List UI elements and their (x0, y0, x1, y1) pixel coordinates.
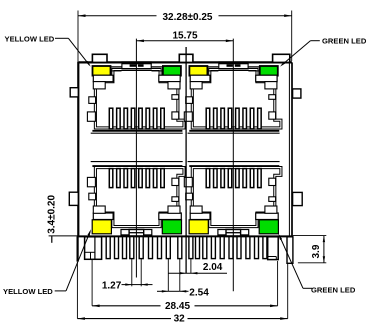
label GREEN LED (top-right) with leader (280, 37, 367, 67)
dimension 3.4±0.20 LED height (46, 195, 77, 243)
through-hole pins row (106, 237, 267, 259)
port cavity wall port C (bottom-left) (95, 168, 184, 227)
LED housing right port B (top-right) (256, 75, 277, 89)
port column centerline B (232, 39, 234, 292)
LED housing right port A (top-left) (159, 75, 180, 89)
shield side tab lower-left (69, 192, 78, 205)
svg-text:YELLOW LED: YELLOW LED (5, 35, 55, 44)
center divider line between port columns (185, 47, 187, 273)
LED housing right port D (bottom-right) (256, 206, 279, 220)
yellow LED window port D (bottom-right) (189, 220, 208, 234)
contact comb (8 contacts) port C (bottom-left) (109, 169, 164, 188)
svg-text:15.75: 15.75 (172, 30, 197, 41)
label YELLOW LED (top-left) with leader (5, 35, 91, 67)
yellow LED window port A (top-left) (93, 66, 111, 76)
yellow LED window port B (top-right) (189, 66, 207, 76)
LED housing left port C (bottom-left) (93, 206, 113, 220)
LED housing left port B (top-right) (190, 75, 210, 89)
dimension 2.54 (157, 259, 209, 298)
svg-text:GREEN LED: GREEN LED (322, 37, 367, 46)
cavity side notches port B (top-right) (184, 95, 275, 122)
svg-text:1.27: 1.27 (102, 281, 122, 292)
label GREEN LED (bottom-right) with leader (278, 234, 356, 295)
svg-text:32: 32 (174, 313, 186, 324)
contact comb (8 contacts) port D (bottom-right) (206, 169, 261, 188)
cavity side notches port A (top-left) (87, 95, 178, 122)
green LED window port A (top-left) (163, 66, 181, 76)
port face base lines port C (bottom-left) (91, 162, 183, 167)
dimension 3.9 pin length (293, 236, 327, 263)
port cavity wall port A (top-left) (95, 70, 184, 128)
dimension 2.04 (169, 259, 228, 274)
latch recess port D (bottom-right) (218, 230, 249, 236)
svg-text:3.4±0.20: 3.4±0.20 (46, 195, 57, 234)
face lip lines port A (top-left) (111, 67, 163, 71)
standoff post right (268, 237, 279, 260)
shield leg far right (double wall) (287, 237, 293, 263)
port face base lines port B (top-right) (188, 131, 280, 133)
dimension 32 overall bottom width (77, 262, 287, 324)
svg-text:3.9: 3.9 (311, 244, 322, 258)
port column centerline A (135, 39, 137, 278)
svg-text:28.45: 28.45 (165, 301, 190, 312)
green LED window port B (top-right) (260, 66, 278, 76)
latch recess port B (top-right) (218, 61, 248, 69)
LED housing right port C (bottom-left) (159, 206, 182, 220)
shield top tab left (92, 54, 107, 62)
cavity side notches port C (bottom-left) (87, 177, 178, 201)
shield side tab upper-left (70, 88, 78, 97)
cavity side notches port D (bottom-right) (184, 177, 275, 201)
dimension 15.75 port spacing (136, 30, 233, 42)
port cavity wall port B (top-right) (192, 70, 281, 128)
contact comb (8 contacts) port A (top-left) (109, 108, 164, 129)
connector shield body outline (77, 61, 293, 236)
shield leg far left (77, 236, 79, 261)
svg-text:2.04: 2.04 (203, 262, 223, 273)
face lip lines port B (top-right) (208, 67, 260, 71)
dimension 28.45 (92, 260, 278, 312)
LED housing left port D (bottom-right) (190, 206, 210, 220)
LED housing left port A (top-left) (93, 75, 113, 89)
label YELLOW LED (bottom-left) with leader (3, 229, 91, 296)
green LED window port C (bottom-left) (162, 220, 181, 234)
svg-text:32.28±0.25: 32.28±0.25 (163, 12, 213, 23)
green LED window port D (bottom-right) (259, 220, 278, 234)
svg-text:GREEN LED: GREEN LED (311, 285, 356, 294)
latch recess port A (top-left) (122, 61, 152, 69)
svg-text:YELLOW LED: YELLOW LED (3, 287, 53, 296)
dimension 1.27 pin pitch (102, 259, 153, 292)
shield right edge (double wall) (289, 62, 292, 236)
port face base lines port A (top-left) (91, 131, 183, 133)
contact comb (8 contacts) port B (top-right) (206, 108, 261, 129)
dimension 32.28±0.25 overall width (78, 11, 292, 62)
shield side tab lower-right (293, 192, 303, 205)
shield top tab center (179, 54, 193, 62)
shield side tab upper-right (293, 89, 301, 98)
standoff post left (85, 237, 102, 259)
yellow LED window port C (bottom-left) (92, 220, 111, 234)
svg-text:2.54: 2.54 (189, 287, 209, 298)
latch recess port C (bottom-left) (121, 230, 152, 236)
shield top tab right (273, 54, 290, 62)
port cavity wall port D (bottom-right) (192, 168, 281, 227)
port face base lines port D (bottom-right) (188, 162, 280, 167)
